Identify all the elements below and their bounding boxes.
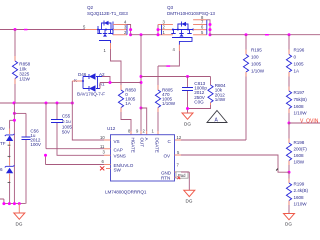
svg-text:DG: DG xyxy=(285,222,292,227)
ground bottom-left xyxy=(18,204,20,213)
pin stub Q2 pin5 xyxy=(85,29,98,31)
svg-text:GND: GND xyxy=(161,170,172,175)
diode TVS top xyxy=(5,129,15,148)
bottom diode xyxy=(83,77,100,92)
no-connect X on SW xyxy=(100,166,104,170)
svg-text:0.1u: 0.1u xyxy=(62,119,71,124)
wire: Q2 gate to R850 xyxy=(111,49,122,85)
resistor R805 xyxy=(155,66,175,135)
capacitor C56 xyxy=(22,113,42,203)
wire: main column x14 xyxy=(13,103,15,204)
gate pin 4 xyxy=(178,45,180,52)
svg-text:1/10W: 1/10W xyxy=(162,101,176,106)
svg-text:1608: 1608 xyxy=(294,104,305,109)
note triangle A xyxy=(207,111,227,124)
svg-text:LM74800QDRRRQ1: LM74800QDRRRQ1 xyxy=(105,190,147,195)
svg-text:DG: DG xyxy=(184,122,191,127)
svg-text:200(F): 200(F) xyxy=(294,147,308,152)
transistor Q2 xyxy=(87,5,132,53)
svg-text:CAP: CAP xyxy=(114,148,123,153)
transistor Q3 xyxy=(157,5,216,52)
svg-text:DG: DG xyxy=(16,222,23,227)
svg-text:1/8W: 1/8W xyxy=(294,160,305,165)
channel bars xyxy=(97,33,112,35)
node V_OVIN xyxy=(288,122,291,125)
diode TVS bottom xyxy=(5,158,15,181)
capacitor C55 xyxy=(51,103,104,155)
svg-text:75k(B): 75k(B) xyxy=(294,97,308,102)
gate line xyxy=(99,41,111,44)
svg-text:VSNS: VSNS xyxy=(114,153,126,158)
wire: K drop xyxy=(71,81,73,103)
wire: R850 to HGATE xyxy=(121,112,131,131)
svg-text:12: 12 xyxy=(177,135,182,140)
resistor R804 xyxy=(186,77,226,111)
ground under C813 xyxy=(182,113,193,119)
ground under U12 xyxy=(184,190,195,196)
bus1 xyxy=(0,102,72,104)
wire: Q3 gate staircase to R805 xyxy=(158,51,179,66)
wire: A1 row xyxy=(100,83,141,89)
svg-text:HGATE: HGATE xyxy=(130,138,135,153)
svg-text:1/4W: 1/4W xyxy=(215,97,226,102)
resistor R195 xyxy=(243,35,264,140)
gate pin 1 xyxy=(110,43,112,49)
svg-text:OV: OV xyxy=(164,153,172,158)
resistor R196 xyxy=(286,35,304,77)
svg-text:1/10W: 1/10W xyxy=(251,69,265,74)
resistor R197 xyxy=(286,77,307,124)
body xyxy=(173,29,193,31)
svg-text:1/10W: 1/10W xyxy=(294,111,308,116)
svg-text:1A: 1A xyxy=(294,69,301,74)
wire: output rail xyxy=(210,34,320,36)
resistor R858 xyxy=(12,30,30,104)
wire: middle node down xyxy=(140,35,142,108)
svg-text:10: 10 xyxy=(100,135,105,140)
pad box xyxy=(176,172,188,178)
wire: C56 feed xyxy=(14,112,26,114)
wire: left input rail xyxy=(0,29,85,31)
svg-text:OUT: OUT xyxy=(140,138,145,148)
junction xyxy=(14,28,17,31)
svg-text:100: 100 xyxy=(251,55,259,60)
svg-text:1005: 1005 xyxy=(62,124,73,129)
svg-text:SQJQ112E-T1_GE3: SQJQ112E-T1_GE3 xyxy=(87,11,128,16)
svg-text:BAV170Q-7-F: BAV170Q-7-F xyxy=(77,92,105,97)
svg-text:0v: 0v xyxy=(0,126,6,131)
body xyxy=(97,26,99,33)
drain bracket pins 4,3,2 xyxy=(113,25,127,35)
resistor R199 xyxy=(286,172,308,213)
svg-text:R197: R197 xyxy=(294,90,305,95)
svg-text:50V: 50V xyxy=(62,130,71,135)
svg-text:DGATE: DGATE xyxy=(155,138,160,153)
svg-text:DG: DG xyxy=(186,199,193,204)
svg-text:1005: 1005 xyxy=(251,62,262,67)
top diode xyxy=(83,74,102,79)
svg-text:VS: VS xyxy=(114,139,120,144)
resistor R198 xyxy=(286,123,307,172)
svg-text:1608: 1608 xyxy=(294,195,305,200)
wire: EN divider column xyxy=(46,103,105,165)
svg-text:RTN: RTN xyxy=(161,176,170,181)
right bracket pins 8,7,6,5 xyxy=(193,20,207,35)
svg-text:1/2W: 1/2W xyxy=(19,77,30,82)
capacitor C813 xyxy=(182,77,207,114)
net marker dash xyxy=(166,65,170,67)
svg-text:SW: SW xyxy=(114,168,122,173)
right pin stubs xyxy=(175,155,182,177)
svg-text:100V: 100V xyxy=(30,142,42,147)
svg-text:2.4k(B): 2.4k(B) xyxy=(294,188,309,193)
wire: GND/RTN to ground xyxy=(181,172,189,190)
tick label xyxy=(8,144,11,146)
svg-text:R199: R199 xyxy=(294,182,305,187)
wire: C pin to R195 xyxy=(181,139,246,141)
wire: middle rail Q2-Q3 xyxy=(131,34,158,36)
wire: A2 jog xyxy=(102,77,110,83)
node stub marker xyxy=(24,29,27,31)
left pin stubs xyxy=(104,140,111,169)
svg-text:R196: R196 xyxy=(294,48,305,53)
svg-text:1/10W: 1/10W xyxy=(294,202,308,207)
svg-text:1005: 1005 xyxy=(294,62,305,67)
net marker dash xyxy=(265,34,269,36)
wire: VS route xyxy=(72,103,104,140)
svg-text:DMTH10H010SPSQ-13: DMTH10H010SPSQ-13 xyxy=(167,11,215,16)
svg-text:Q2: Q2 xyxy=(87,5,94,10)
resistor R850 xyxy=(118,85,136,112)
wire: to OUT pin xyxy=(141,108,147,131)
svg-text:U12: U12 xyxy=(107,126,116,131)
svg-text:C0G: C0G xyxy=(194,100,204,105)
node OV junction xyxy=(288,171,291,174)
svg-text:V_OVIN: V_OVIN xyxy=(300,118,319,124)
wire: upper row to C813/R804 xyxy=(141,76,211,78)
svg-text:1A: 1A xyxy=(125,101,132,106)
gate line xyxy=(172,38,192,46)
svg-text:R198: R198 xyxy=(294,140,305,145)
bottom bus xyxy=(0,199,26,204)
svg-text:R195: R195 xyxy=(251,48,262,53)
ground under R199 xyxy=(284,214,295,220)
diode D46 BAV170Q-7-F xyxy=(74,72,105,97)
svg-text:TF: TF xyxy=(0,141,6,146)
op-amp U12 LM74800QDRRRQ1 xyxy=(100,126,188,195)
svg-text:C55: C55 xyxy=(62,114,71,119)
left bracket pins 3,2,1 xyxy=(157,25,159,35)
wire: OV pin route xyxy=(181,155,289,172)
node middle drop xyxy=(140,33,143,36)
svg-text:Q3: Q3 xyxy=(167,5,174,10)
svg-text:1608: 1608 xyxy=(294,153,305,158)
wire: diode branch jog xyxy=(10,120,15,128)
